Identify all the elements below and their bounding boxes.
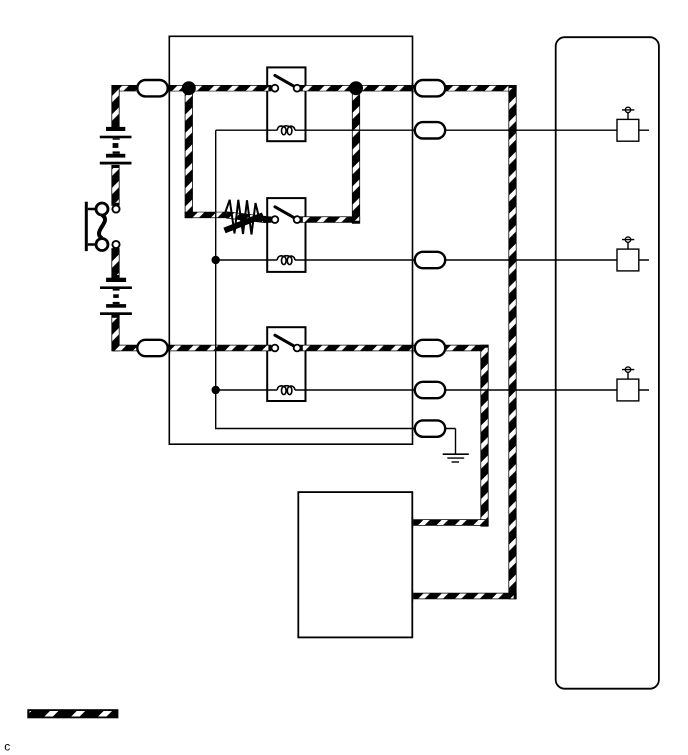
- relay R1 box: [267, 67, 305, 141]
- relay R2 box: [267, 198, 305, 272]
- battery B1 plates: [100, 127, 132, 165]
- relay R3 box: [267, 327, 305, 401]
- shielded wire battery2 to relay3 (bottom-left): [111, 315, 119, 351]
- fusible link zigzag: [225, 215, 264, 230]
- relay R3 contacts: [272, 335, 301, 351]
- junction top-left: [182, 81, 196, 95]
- relay R1 contacts: [272, 75, 301, 91]
- injector assembly (right rounded box): [556, 37, 659, 689]
- shielded wire relay1 out to ECU (right loop): [300, 85, 517, 91]
- connector oval left bottom: [137, 340, 167, 356]
- shielded wire battery+ to relay1 (top-left): [112, 85, 272, 91]
- battery disconnect switch: [85, 202, 120, 251]
- shielded wire relay2 out to top bus: [300, 216, 360, 222]
- ground: [443, 454, 469, 462]
- connector oval right 1: [415, 80, 445, 96]
- wire relay3 coil line: [216, 389, 617, 391]
- relay R3 coil: [277, 386, 295, 395]
- connector oval left top: [137, 80, 167, 96]
- legend shielded wire sample: [28, 710, 118, 718]
- junction coil2: [212, 256, 220, 264]
- connector oval right 5: [415, 382, 445, 398]
- connector oval right 4: [415, 340, 445, 356]
- wire relay1 coil line: [216, 129, 617, 131]
- injector 1: [617, 107, 649, 141]
- wire ground lead: [455, 429, 457, 454]
- injector 2: [617, 237, 649, 271]
- connector oval right 2: [415, 122, 445, 138]
- wire relay2 coil line: [216, 259, 617, 261]
- junction block (center box): [169, 36, 412, 444]
- injector 3: [617, 367, 649, 401]
- shielded wire battery1 to switch: [111, 165, 119, 206]
- wire coil common return vertical: [216, 130, 456, 428]
- junction coil3: [212, 386, 220, 394]
- connector oval right 3: [415, 252, 445, 268]
- svg-text:c: c: [4, 739, 10, 753]
- shielded wire relay3 out to ECU: [300, 345, 489, 351]
- connector oval right 6 (ground): [415, 420, 445, 436]
- shielded wire switch to battery2: [111, 248, 119, 278]
- ECU box (bottom box): [298, 492, 412, 637]
- box edge restore segments: [169, 83, 412, 602]
- relay R2 coil: [277, 256, 295, 265]
- shielded wire branch to relay2 via fusible link: [185, 85, 193, 218]
- relay R1 coil: [277, 126, 295, 135]
- relay R2 contacts: [272, 207, 301, 223]
- battery B2 plates: [100, 278, 132, 315]
- junction top-right: [349, 81, 363, 95]
